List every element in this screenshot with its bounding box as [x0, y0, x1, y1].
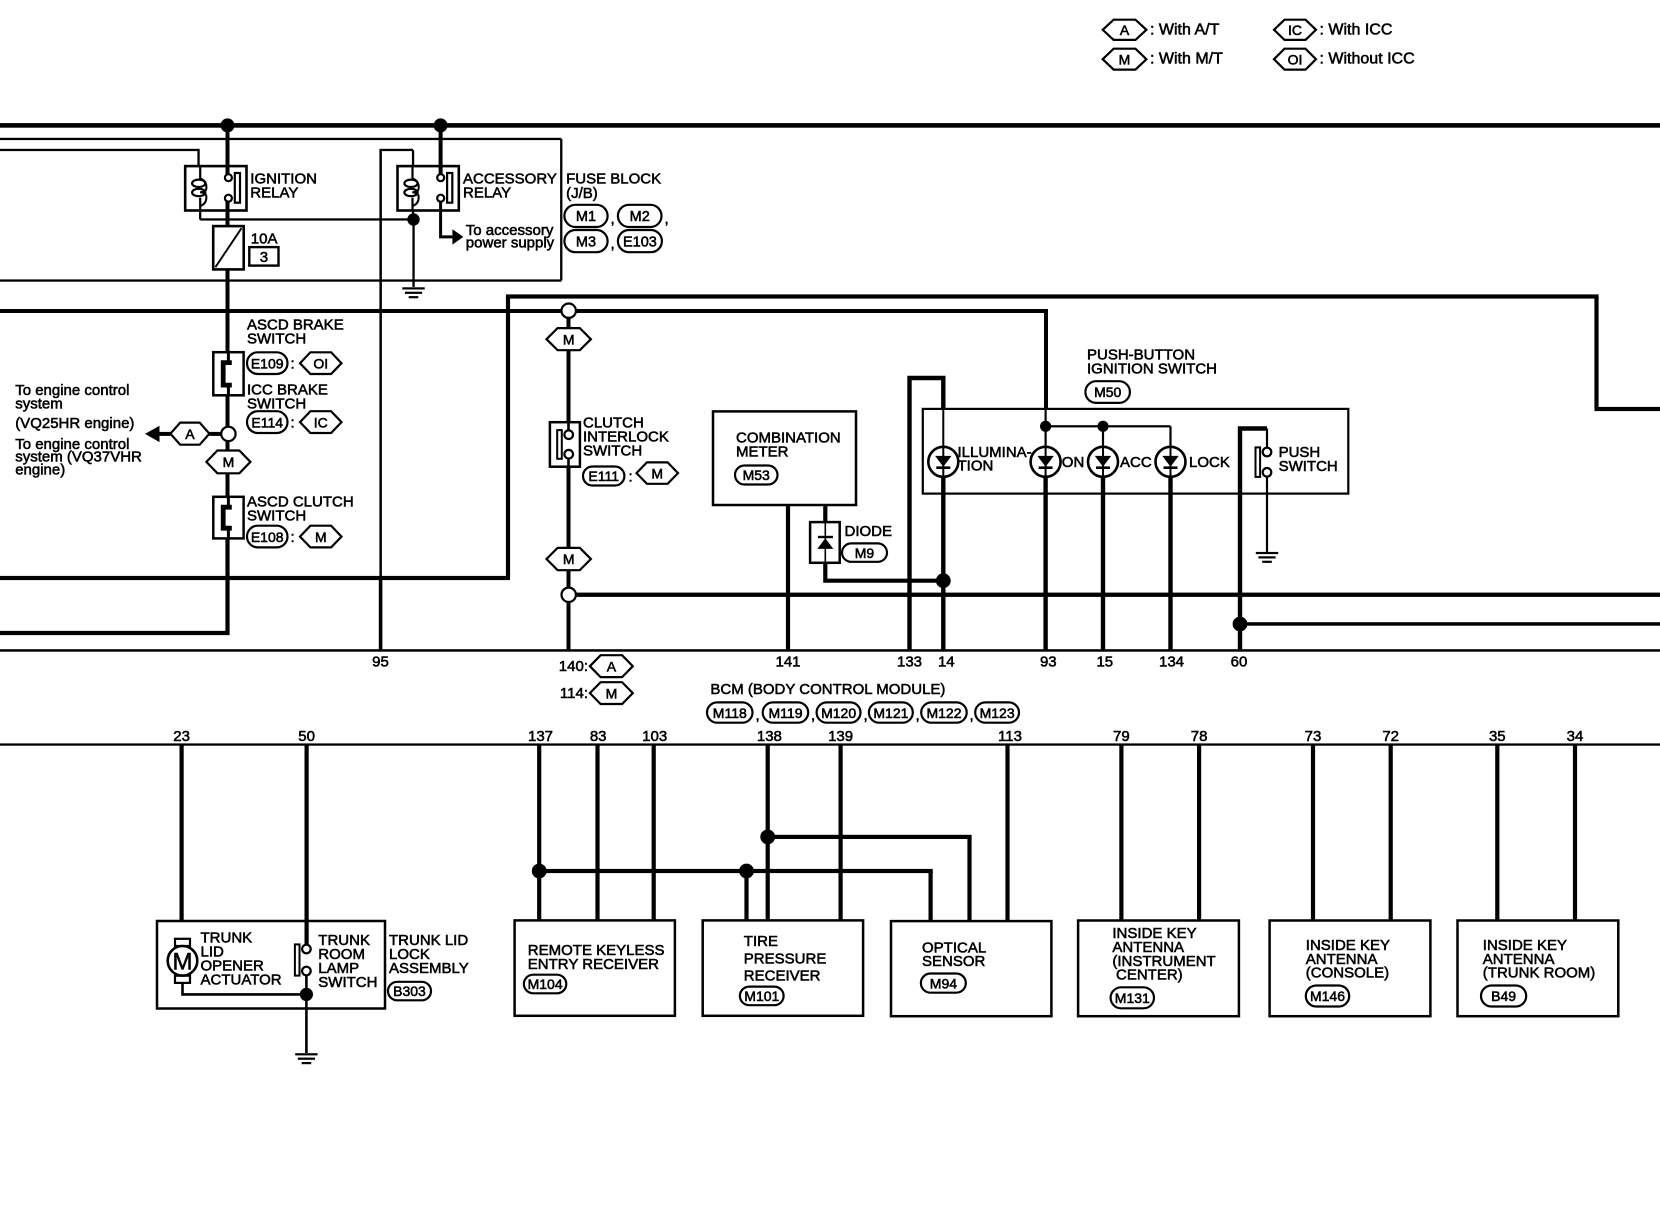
switch ASCD clutch switch E108	[213, 497, 243, 539]
hexagon M (interlock, lower)	[547, 548, 591, 570]
wire pin 60 branch to right edge	[1240, 622, 1660, 626]
svg-text:138: 138	[757, 728, 782, 745]
svg-text:SWITCH: SWITCH	[1279, 458, 1338, 475]
wire BCM pin 137	[537, 745, 541, 921]
wire BCM pin 141	[786, 505, 790, 651]
wire BCM pin 95 (upper)	[379, 149, 382, 578]
svg-text:79: 79	[1113, 728, 1130, 745]
switch ASCD brake switch E109	[213, 352, 243, 395]
svg-text:M: M	[315, 529, 327, 545]
svg-text:14: 14	[938, 653, 955, 670]
wire LOCK LED (thin)	[1169, 426, 1171, 447]
svg-text:(J/B): (J/B)	[566, 185, 598, 202]
remote keyless entry receiver M104 (box)	[515, 920, 675, 1015]
fuse block J/B top edge	[0, 138, 561, 140]
svg-text:M: M	[1119, 51, 1131, 67]
wire lamp switch to common	[305, 975, 308, 988]
svg-text:DIODE: DIODE	[845, 523, 893, 540]
fuse block J/B bottom edge	[0, 279, 561, 281]
connector circle clutch interlock (top)	[562, 304, 576, 318]
wire into interlock switch	[567, 422, 570, 431]
wire bus to accessory relay contact	[439, 125, 443, 174]
wire accessory relay coil feed	[381, 149, 413, 151]
wire ignition power feed (horizontal)	[0, 309, 1048, 313]
ground push switch	[1256, 552, 1278, 563]
fuse number box 3	[249, 247, 278, 266]
svg-text:,: ,	[611, 236, 615, 253]
wire BCM pin 113	[1005, 745, 1009, 922]
svg-text:SWITCH: SWITCH	[247, 507, 306, 524]
svg-text:72: 72	[1382, 728, 1399, 745]
switch clutch interlock contacts	[557, 430, 573, 459]
switch clutch interlock switch E111 (box)	[550, 422, 580, 467]
hexagon A (pin 140)	[590, 655, 633, 677]
wire BCM pins 140/114	[567, 602, 571, 651]
svg-text:,: ,	[756, 707, 760, 724]
svg-text:OI: OI	[313, 355, 328, 371]
legend hexagon OI (Without ICC)	[1274, 49, 1316, 70]
svg-text:M: M	[651, 465, 663, 481]
svg-text:,: ,	[970, 707, 974, 724]
wire BCM pin 79	[1119, 745, 1123, 921]
svg-text:ASSEMBLY: ASSEMBLY	[389, 960, 469, 977]
wire to push switch contact	[1266, 429, 1268, 449]
wire ignition coil to ground bus	[199, 211, 201, 220]
wire BCM pin 138	[766, 745, 770, 921]
wire A hexagon to arrow	[159, 432, 171, 436]
svg-text:M: M	[606, 685, 618, 701]
svg-text:E114: E114	[251, 414, 283, 430]
svg-text:power supply: power supply	[466, 234, 555, 251]
LED LOCK	[1156, 447, 1186, 477]
svg-text:RELAY: RELAY	[463, 185, 511, 202]
tire pressure receiver M101 (box)	[703, 920, 863, 1015]
svg-text:OI: OI	[1288, 51, 1303, 67]
wire tie drop to optical sensor	[929, 871, 933, 921]
arrow to accessory power supply	[452, 229, 463, 244]
svg-text:M123: M123	[980, 705, 1015, 721]
wire ASCD clutch switch to left exit	[0, 538, 228, 633]
svg-text:BCM (BODY CONTROL MODULE): BCM (BODY CONTROL MODULE)	[710, 681, 945, 698]
connector circle clutch interlock (bottom)	[562, 588, 576, 602]
wire ignition relay to fuse	[226, 201, 230, 226]
connector M94	[921, 974, 966, 993]
connector M50	[1085, 381, 1130, 403]
connector M3	[564, 230, 607, 252]
svg-text:83: 83	[590, 728, 607, 745]
svg-text:,: ,	[864, 707, 868, 724]
wire M hexagon to circle (lower)	[567, 570, 571, 587]
wire pin-138 branch (y837)	[768, 835, 972, 839]
hexagon M (clutch switch, M/T)	[206, 451, 250, 474]
svg-text:10A: 10A	[251, 231, 278, 248]
svg-text:B303: B303	[393, 983, 426, 999]
wire BCM pin 139	[839, 745, 843, 921]
wire LED feed rail (in box)	[1046, 425, 1171, 427]
wire BCM pin 50 to trunk room lamp switch	[305, 745, 309, 945]
svg-text:,: ,	[665, 211, 669, 228]
svg-text:M121: M121	[873, 705, 908, 721]
connector E111	[583, 467, 624, 486]
wire push switch to ground	[1266, 476, 1268, 552]
wire bus right drop	[1594, 297, 1598, 410]
legend hexagon A (With A/T)	[1103, 20, 1147, 40]
wire M hexagon to clutch interlock switch	[567, 350, 571, 422]
wire BCM pin 60 riser	[1240, 429, 1267, 651]
svg-text:137: 137	[528, 728, 553, 745]
wire relay coil ground bus	[200, 218, 413, 220]
switch trunk room lamp switch	[295, 944, 311, 975]
svg-text:,: ,	[611, 211, 615, 228]
hexagon A (engine control branch)	[170, 423, 209, 445]
svg-text:M120: M120	[821, 705, 856, 721]
svg-text:95: 95	[372, 653, 389, 670]
wire fuse to ASCD brake switch	[226, 269, 230, 352]
wire drop to ignition relay coil	[197, 149, 199, 166]
junction pin 60 branch	[1233, 617, 1248, 632]
connector M121	[869, 702, 913, 722]
wire interlock switch to M hexagon (lower)	[567, 467, 571, 548]
junction pin 137 tie	[532, 864, 547, 879]
svg-text:113: 113	[998, 728, 1022, 745]
fuse block J/B right edge	[560, 139, 562, 281]
svg-text:E108: E108	[251, 529, 284, 545]
svg-text:LOCK: LOCK	[1189, 454, 1230, 471]
wire BCM pin 103	[652, 745, 656, 921]
connector E109	[247, 352, 288, 374]
svg-text:M2: M2	[630, 209, 650, 225]
svg-text:TIRE: TIRE	[744, 933, 778, 950]
svg-text:system: system	[15, 396, 63, 413]
connector M119	[763, 702, 809, 722]
hexagon IC (ICC brake switch)	[300, 411, 342, 433]
svg-text:M146: M146	[1310, 988, 1345, 1004]
svg-text:IC: IC	[314, 414, 328, 430]
wire bus upper segment	[506, 294, 1599, 298]
svg-text:CENTER): CENTER)	[1116, 967, 1183, 984]
junction coil ground bus	[407, 213, 419, 225]
svg-text:M122: M122	[926, 705, 961, 721]
svg-text:M50: M50	[1094, 384, 1121, 400]
wire tie drop to tire pressure receiver	[744, 871, 748, 920]
svg-text:: With A/T: : With A/T	[1150, 21, 1220, 38]
svg-text:M3: M3	[576, 234, 596, 250]
svg-text:ON: ON	[1062, 454, 1085, 471]
svg-text:141: 141	[775, 653, 800, 670]
svg-text:ACC: ACC	[1120, 454, 1152, 471]
svg-text:M101: M101	[744, 988, 779, 1004]
svg-text:73: 73	[1305, 728, 1322, 745]
wire branch drop to optical sensor	[967, 837, 971, 921]
svg-text:35: 35	[1489, 728, 1506, 745]
LED ON	[1031, 447, 1061, 477]
hexagon M (interlock, upper)	[547, 328, 591, 350]
wire BCM pin 73	[1311, 745, 1315, 921]
svg-text:M118: M118	[713, 705, 747, 721]
svg-text:IGNITION SWITCH: IGNITION SWITCH	[1087, 360, 1217, 377]
arrow to engine control system	[145, 426, 160, 442]
svg-text:B49: B49	[1491, 988, 1516, 1004]
wire diode to pin-14 junction	[825, 563, 943, 581]
switch push switch contacts	[1256, 447, 1272, 477]
svg-text:103: 103	[642, 728, 667, 745]
svg-text:(TRUNK ROOM): (TRUNK ROOM)	[1483, 965, 1596, 982]
connector E114	[247, 411, 288, 433]
svg-text:E103: E103	[623, 234, 657, 250]
connector circle to engine control	[221, 427, 235, 441]
svg-text:ACTUATOR: ACTUATOR	[201, 972, 282, 989]
svg-text:114:: 114:	[560, 685, 588, 702]
svg-text:M53: M53	[743, 467, 770, 483]
wire battery power bus (top)	[0, 123, 1660, 128]
wire accessory coil to ground bus	[412, 211, 414, 220]
connector M101	[740, 987, 784, 1006]
hexagon M (ASCD clutch switch)	[300, 526, 342, 548]
junction tire receiver tie	[739, 864, 754, 879]
wire motor to switch common	[183, 983, 307, 995]
relay accessory relay	[398, 166, 459, 210]
svg-text:3: 3	[260, 249, 268, 266]
svg-text:: Without ICC: : Without ICC	[1320, 51, 1415, 68]
wire BCM pin 15	[1101, 477, 1105, 651]
svg-text:M: M	[173, 948, 193, 975]
svg-text:(CONSOLE): (CONSOLE)	[1306, 965, 1389, 982]
wire out of interlock switch	[567, 458, 570, 467]
svg-text:(VQ25HR engine): (VQ25HR engine)	[15, 415, 134, 432]
diode M9	[810, 522, 840, 563]
wire ignition power drop to push-button switch	[1044, 311, 1048, 409]
svg-text:140:: 140:	[559, 658, 588, 675]
svg-text:M1: M1	[576, 209, 596, 225]
wire bus exit right	[1595, 407, 1660, 411]
svg-text:M: M	[563, 551, 575, 567]
fuse 10A No.3	[213, 226, 244, 269]
svg-text:M9: M9	[855, 545, 875, 561]
svg-text:,: ,	[916, 707, 920, 724]
BCM top edge	[0, 649, 1660, 652]
connector M146	[1306, 986, 1349, 1007]
hexagon OI (ASCD brake switch)	[300, 352, 342, 374]
svg-text:93: 93	[1040, 653, 1057, 670]
svg-text:SWITCH: SWITCH	[318, 974, 377, 991]
connector E108	[247, 526, 288, 548]
ground relay coils	[402, 287, 424, 298]
junction LED rail at ON	[1040, 421, 1051, 432]
ground trunk lid lock assembly	[295, 1053, 317, 1064]
svg-text:IC: IC	[1288, 22, 1302, 38]
svg-text:E111: E111	[588, 468, 619, 484]
svg-text:,: ,	[811, 707, 815, 724]
inside key antenna instrument center M131 (box)	[1078, 921, 1239, 1017]
svg-text:METER: METER	[736, 443, 789, 460]
connector E103	[618, 230, 662, 252]
connector M2	[618, 205, 662, 227]
wire BCM pin 78	[1197, 745, 1201, 921]
wire BCM pin 34	[1573, 745, 1577, 921]
connector M9	[842, 543, 887, 561]
svg-text:M131: M131	[1115, 990, 1150, 1006]
push-button ignition switch M50 (box)	[923, 409, 1349, 494]
svg-text:TION: TION	[958, 458, 994, 475]
wire illumination LED (thin, in box)	[942, 409, 944, 447]
wire keyless/tire/optical tie (y871)	[539, 869, 933, 873]
svg-text:RELAY: RELAY	[250, 185, 298, 202]
junction on bus at accessory relay	[434, 118, 448, 132]
junction diode output on wire 14	[936, 573, 951, 588]
svg-text:A: A	[607, 658, 617, 674]
svg-text::: :	[629, 469, 633, 486]
svg-text:139: 139	[828, 728, 853, 745]
wire BCM pin 35	[1495, 745, 1499, 921]
wire BCM pin 93	[1043, 477, 1047, 651]
svg-text:: With M/T: : With M/T	[1150, 51, 1223, 68]
connector M104	[524, 975, 566, 994]
svg-text:PRESSURE: PRESSURE	[744, 950, 827, 967]
wire brake switch to junction circle	[226, 395, 230, 427]
wire ON LED (thin)	[1045, 409, 1047, 447]
optical sensor M94 (box)	[891, 921, 1051, 1016]
BCM bottom edge	[0, 743, 1660, 745]
wire bus lower-left segment	[0, 576, 510, 580]
svg-text:15: 15	[1096, 653, 1113, 670]
svg-text::: :	[291, 356, 295, 373]
inside key antenna trunk room B49 (box)	[1458, 921, 1619, 1017]
wire BCM pin 95 (lower)	[379, 578, 383, 651]
connector M131	[1111, 987, 1154, 1008]
wire loop pins 133/14	[910, 378, 944, 651]
wire BCM pin 83	[595, 745, 599, 921]
wire ignition relay coil feed	[0, 149, 199, 151]
svg-text:23: 23	[173, 728, 190, 745]
svg-text:133: 133	[897, 653, 922, 670]
junction trunk switch/motor common	[300, 988, 313, 1001]
wire to relay ground	[412, 220, 414, 288]
svg-text:134: 134	[1159, 653, 1184, 670]
svg-text:SWITCH: SWITCH	[583, 443, 642, 460]
svg-text:78: 78	[1191, 728, 1208, 745]
wire M hexagon to ASCD clutch switch	[226, 473, 230, 497]
svg-text::: :	[291, 529, 295, 546]
connector M122	[921, 702, 967, 722]
wire BCM pin 14	[941, 477, 945, 651]
svg-text:A: A	[185, 426, 195, 442]
svg-text:M: M	[223, 454, 235, 470]
legend hexagon M (With M/T)	[1103, 49, 1147, 70]
relay ignition relay	[185, 166, 246, 210]
wire ignition signal bus (y595)	[569, 593, 1660, 597]
wire circle to M hexagon (interlock top)	[567, 318, 571, 328]
svg-text:SWITCH: SWITCH	[247, 330, 306, 347]
svg-text:34: 34	[1567, 728, 1584, 745]
LED ACC	[1088, 447, 1118, 477]
hexagon M (interlock connector)	[637, 462, 679, 483]
svg-text:M: M	[563, 331, 575, 347]
connector B49	[1481, 986, 1526, 1007]
connector B303	[388, 982, 431, 1001]
svg-text:E109: E109	[251, 355, 284, 371]
connector M123	[975, 702, 1019, 722]
wire bus vertical riser	[506, 297, 510, 579]
junction LED rail at ACC	[1097, 421, 1108, 432]
svg-text:M119: M119	[769, 705, 803, 721]
svg-text:SWITCH: SWITCH	[247, 395, 306, 412]
connector M118	[707, 702, 753, 722]
junction on bus at ignition relay	[221, 118, 235, 132]
wire BCM pin 23 to trunk lid opener	[180, 745, 184, 922]
connector M1	[564, 205, 607, 227]
hexagon M (pin 114)	[590, 682, 633, 704]
svg-text:: With ICC: : With ICC	[1320, 21, 1393, 38]
motor trunk lid opener actuator	[168, 939, 198, 983]
wire bus to ignition relay contact	[226, 125, 230, 174]
svg-text:M94: M94	[930, 975, 957, 991]
svg-text:60: 60	[1231, 653, 1248, 670]
LED illumination	[928, 447, 958, 477]
svg-text:M104: M104	[528, 976, 563, 992]
svg-text:50: 50	[298, 728, 315, 745]
wire BCM pin 134	[1168, 477, 1172, 651]
connector M53	[735, 466, 778, 485]
svg-text:engine): engine)	[15, 462, 65, 479]
wire circle to A hexagon	[209, 432, 221, 436]
wire BCM pin 72	[1389, 745, 1393, 921]
wire circle to M hexagon	[226, 441, 230, 450]
trunk lid lock assembly B303 (box)	[157, 921, 385, 1009]
junction pin 138 branch	[760, 830, 775, 845]
svg-text:A: A	[1120, 22, 1130, 38]
svg-text::: :	[291, 414, 295, 431]
wire combination meter to diode	[823, 505, 827, 522]
legend hexagon IC (With ICC)	[1274, 20, 1316, 40]
connector M120	[817, 702, 861, 722]
wire common to ground	[305, 1001, 308, 1053]
combination meter M53 (box)	[713, 411, 856, 505]
svg-text:SENSOR: SENSOR	[922, 953, 986, 970]
svg-text:ENTRY RECEIVER: ENTRY RECEIVER	[528, 956, 659, 973]
svg-text:RECEIVER: RECEIVER	[744, 968, 821, 985]
wire drop to accessory relay coil	[412, 150, 414, 166]
wire ACC LED (thin)	[1102, 426, 1104, 447]
inside key antenna console M146 (box)	[1270, 921, 1431, 1017]
wire accessory relay output to arrow	[441, 201, 453, 237]
